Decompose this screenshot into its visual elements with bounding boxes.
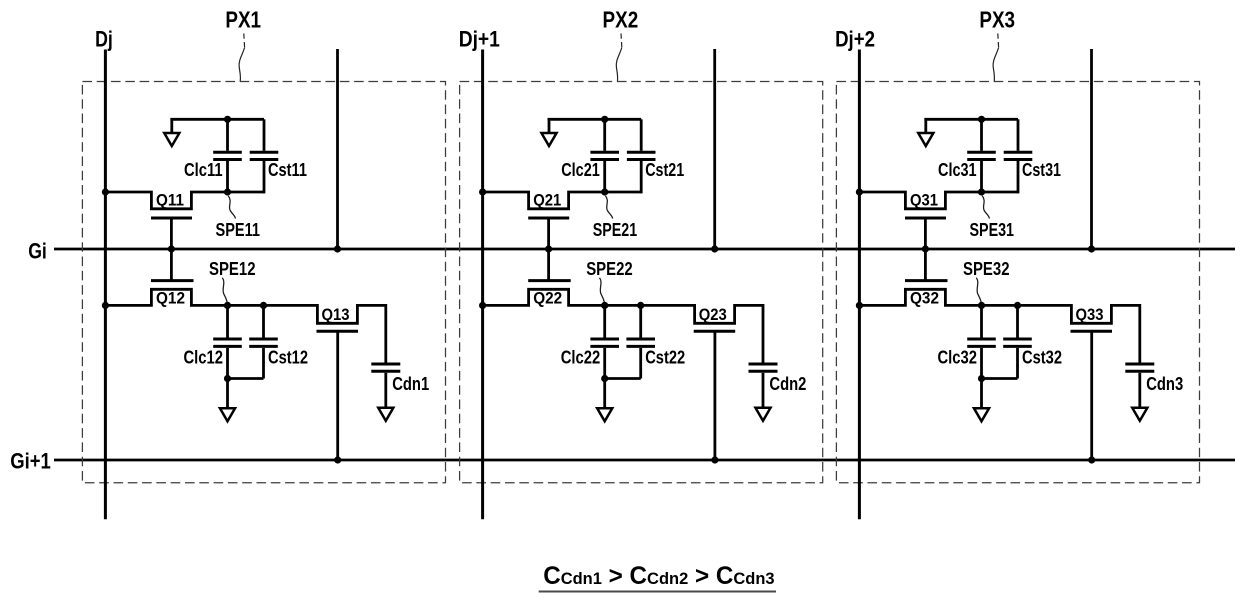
junction gates / Gi (545, 245, 552, 252)
svg-text:PX1: PX1 (225, 7, 261, 33)
junction Dj+2 / Q31 (856, 188, 863, 195)
transistor Q33 gate (1071, 331, 1113, 460)
node SPE12 junction (224, 302, 231, 309)
svg-text:SPE31: SPE31 (970, 220, 1015, 240)
junction ground node (pixel 2) (601, 375, 608, 382)
svg-text:Dj+2: Dj+2 (835, 26, 875, 51)
transistor Q31 gate (905, 218, 946, 249)
svg-text:PX3: PX3 (979, 7, 1015, 33)
leader line PX1 (243, 34, 246, 48)
junction Dj+2 / Q32 (856, 302, 863, 309)
transistor Q13 gate (317, 331, 359, 460)
capacitor Clc11 (213, 119, 242, 192)
svg-text:Clc11: Clc11 (184, 160, 223, 180)
svg-text:SPE21: SPE21 (593, 220, 638, 240)
ground (top, pixel 3) (918, 133, 933, 146)
svg-text:Q21: Q21 (533, 191, 561, 210)
svg-text:Cst11: Cst11 (268, 160, 307, 180)
transistor Q32 source-drain (859, 289, 981, 305)
junction Dj+1 / Q21 (479, 188, 486, 195)
ground stem (top, pixel 3) (924, 118, 927, 134)
svg-text:Cdn3: Cdn3 (1146, 374, 1183, 394)
ground (bottom, pixel 1) (220, 408, 235, 421)
capacitor Clc31 (967, 119, 996, 192)
svg-text:Q32: Q32 (910, 288, 939, 307)
capacitor Cst32 (982, 305, 1032, 378)
capacitor Clc32 (967, 305, 996, 378)
leader SPE22 (600, 278, 605, 304)
ground (top, pixel 1) (164, 133, 179, 146)
junction Dj / Q11 (102, 188, 109, 195)
capacitor Cst11 (250, 119, 279, 193)
leader SPE31 (982, 196, 989, 219)
capacitor Cst31 (1004, 119, 1033, 193)
svg-text:Dj+1: Dj+1 (459, 26, 500, 51)
ground stem (top, pixel 1) (170, 118, 173, 134)
junction Q33 gate / Gi+1 (1088, 456, 1095, 463)
junction Q23 gate / Gi+1 (711, 456, 718, 463)
gate line Gi (54, 248, 1235, 251)
svg-text:Dj: Dj (95, 26, 113, 51)
leader SPE11 (228, 196, 235, 219)
transistor Q13 source-drain (317, 304, 385, 323)
junction storage line / Gi (334, 245, 341, 252)
junction gates / Gi (922, 245, 929, 252)
svg-text:SPE22: SPE22 (586, 259, 633, 279)
junction Clc31 / top rail (978, 116, 985, 123)
leader SPE12 (222, 278, 227, 304)
svg-text:SPE32: SPE32 (963, 259, 1010, 279)
top rail (pixel 2) (548, 118, 642, 121)
top rail (pixel 3) (924, 118, 1018, 121)
node SPE22 junction (601, 302, 608, 309)
formula underline (539, 591, 776, 593)
data line Dj (104, 50, 107, 520)
junction Cst12 (260, 302, 267, 309)
ground (top, pixel 2) (541, 133, 556, 146)
transistor Q23 gate (694, 331, 736, 460)
ground (Cdn3) (1132, 408, 1147, 421)
leader SPE32 (976, 278, 981, 304)
svg-text:Clc31: Clc31 (938, 160, 977, 180)
svg-text:SPE11: SPE11 (216, 220, 261, 240)
pixel boundary box PX1 (dashed) (82, 82, 445, 483)
svg-text:Q33: Q33 (1076, 305, 1104, 324)
capacitor Clc22 (590, 305, 619, 378)
transistor Q23 source-drain (695, 304, 763, 323)
data line Dj+2 (858, 50, 861, 520)
transistor Q12 source-drain (105, 289, 227, 305)
ground (bottom, pixel 3) (974, 408, 989, 421)
node SPE11 junction (224, 188, 231, 195)
junction gates / Gi (168, 245, 175, 252)
svg-text:Cst22: Cst22 (645, 348, 685, 368)
capacitor Cst22 (605, 305, 655, 378)
capacitor Clc12 (213, 305, 242, 378)
leader SPE21 (605, 196, 612, 219)
capacitor Cdn3 (1125, 304, 1154, 408)
svg-text:Clc32: Clc32 (938, 348, 978, 368)
junction storage line / Gi (711, 245, 718, 252)
gate line Gi+1 (54, 459, 1235, 462)
node SPE32 junction (978, 302, 985, 309)
ground stem (top, pixel 2) (548, 118, 551, 134)
ground stem (bottom, pixel 2) (603, 379, 606, 410)
transistor Q22 gate (528, 249, 571, 281)
capacitor Cst21 (627, 119, 656, 193)
pixel boundary box PX3 (dashed) (836, 82, 1199, 483)
capacitor Clc21 (590, 119, 619, 192)
svg-text:Q23: Q23 (699, 305, 727, 324)
svg-text:Clc22: Clc22 (561, 348, 601, 368)
junction Dj+1 / Q22 (479, 302, 486, 309)
svg-text:Cst12: Cst12 (268, 348, 308, 368)
svg-text:Q13: Q13 (322, 305, 350, 324)
svg-text:Clc21: Clc21 (561, 160, 600, 180)
svg-text:Q31: Q31 (910, 191, 938, 210)
transistor Q21 gate (528, 218, 569, 249)
pixel boundary box PX2 (dashed) (460, 82, 823, 483)
ground stem (bottom, pixel 3) (980, 379, 983, 410)
junction Clc21 / top rail (601, 116, 608, 123)
svg-text:Gi: Gi (28, 239, 47, 264)
data line Dj+1 (481, 50, 484, 520)
junction Dj / Q12 (102, 302, 109, 309)
capacitor Cst12 (228, 305, 278, 378)
leader line PX2 (620, 34, 623, 48)
top rail (pixel 1) (170, 118, 264, 121)
svg-text:Gi+1: Gi+1 (10, 448, 51, 473)
junction Clc11 / top rail (224, 116, 231, 123)
capacitor Cdn1 (371, 304, 400, 408)
svg-text:Q22: Q22 (533, 288, 562, 307)
storage line (pixel 1) (336, 49, 339, 249)
svg-text:Clc12: Clc12 (184, 348, 224, 368)
junction Cst32 (1014, 302, 1021, 309)
ground stem (bottom, pixel 1) (226, 379, 229, 410)
svg-text:PX2: PX2 (603, 7, 639, 33)
node SPE21 junction (601, 188, 608, 195)
junction Q13 gate / Gi+1 (334, 456, 341, 463)
transistor Q12 gate (151, 249, 194, 281)
svg-text:Cdn2: Cdn2 (769, 374, 806, 394)
svg-text:Q11: Q11 (156, 191, 184, 210)
svg-text:CCdn1 > CCdn2 > CCdn3: CCdn1 > CCdn2 > CCdn3 (543, 562, 774, 590)
svg-text:Cst31: Cst31 (1022, 160, 1061, 180)
transistor Q32 gate (905, 249, 948, 281)
storage line (pixel 2) (713, 49, 716, 249)
wire node SPE32 (982, 304, 1072, 307)
svg-text:Q12: Q12 (156, 288, 185, 307)
transistor Q31 source-drain (859, 192, 1018, 209)
svg-text:Cst32: Cst32 (1022, 348, 1062, 368)
transistor Q11 gate (151, 218, 192, 249)
transistor Q21 source-drain (483, 192, 642, 209)
transistor Q22 source-drain (483, 289, 605, 305)
transistor Q11 source-drain (105, 192, 264, 209)
wire node SPE22 (605, 304, 695, 307)
leader line PX3 (997, 34, 1000, 48)
transistor Q33 source-drain (1071, 304, 1139, 323)
junction ground node (pixel 3) (978, 375, 985, 382)
ground (Cdn1) (378, 408, 393, 421)
node SPE31 junction (978, 188, 985, 195)
svg-text:Cdn1: Cdn1 (392, 374, 429, 394)
svg-text:SPE12: SPE12 (209, 259, 256, 279)
capacitor Cdn2 (749, 304, 778, 408)
junction ground node (pixel 1) (224, 375, 231, 382)
ground (bottom, pixel 2) (597, 408, 612, 421)
ground (Cdn2) (755, 408, 770, 421)
wire node SPE12 (228, 304, 318, 307)
junction storage line / Gi (1088, 245, 1095, 252)
junction Cst22 (637, 302, 644, 309)
storage line (pixel 3) (1090, 49, 1093, 249)
svg-text:Cst21: Cst21 (645, 160, 684, 180)
